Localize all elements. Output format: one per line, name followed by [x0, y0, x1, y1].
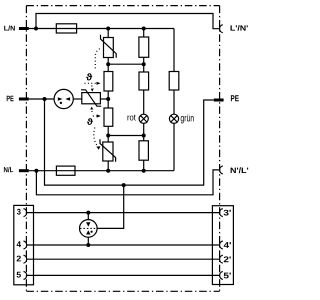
label 4 — [17, 241, 21, 247]
terminal L/N — [19, 27, 29, 30]
wire L/N rail — [29, 28, 57, 30]
varistor MOV1 — [104, 38, 114, 58]
wire PE rail — [29, 98, 54, 100]
device boundary (dash-dot border) — [26, 6, 219, 292]
resistor B1 — [139, 37, 149, 57]
label 2 — [17, 256, 21, 262]
node PE rail / column A — [106, 97, 110, 101]
label theta1 — [86, 73, 92, 80]
wire spark gap to varistor H — [73, 98, 82, 100]
varistor MOV2 — [103, 142, 113, 161]
lamp gruen — [169, 114, 178, 123]
node PE to lower run — [43, 97, 47, 101]
node GDT line 4 — [86, 243, 90, 247]
left terminal block box — [14, 205, 34, 284]
node N/L at through-path — [34, 169, 38, 173]
node row2 B — [142, 134, 146, 138]
thermal sense theta1 dotted from MOV1 — [95, 49, 100, 71]
thermal arrow theta2 to A3 — [93, 115, 97, 117]
label N'/L' — [231, 167, 249, 173]
node L/N to middle column — [142, 27, 146, 31]
right terminal block box — [212, 206, 233, 285]
contact 2' — [220, 255, 223, 263]
contact 3 — [24, 209, 27, 217]
wire N/L rail — [29, 170, 57, 172]
label N/L — [4, 167, 13, 172]
node N/L column A — [106, 169, 110, 173]
node N/L column B — [142, 169, 146, 173]
label PE left — [7, 96, 14, 102]
wire column A to N/L rail — [107, 161, 109, 171]
contact 3' — [220, 209, 223, 217]
disconnect device A2 — [104, 72, 113, 92]
label L'/N' — [231, 25, 248, 31]
terminal PE right — [214, 99, 224, 102]
terminal PE left — [19, 98, 29, 101]
contact N'/L' — [220, 166, 223, 174]
wire B1 to B2 — [143, 57, 145, 72]
wire column A upper — [107, 29, 109, 38]
contact L'/N' — [220, 25, 223, 33]
fuse F1 on L/N — [56, 24, 76, 33]
wire through-path top — [36, 14, 220, 29]
contact 4 — [24, 241, 27, 249]
wire link row1 — [108, 63, 144, 65]
wire line 5 — [27, 274, 220, 276]
wire link row2 — [108, 135, 144, 137]
varistor V3 horizontal — [82, 93, 101, 104]
contact 5' — [220, 271, 223, 279]
node PE run / GDT tap — [122, 183, 126, 187]
label PE right — [231, 95, 239, 101]
label 4' — [224, 242, 231, 248]
contact 4' — [220, 241, 223, 249]
wire GDT to line 3 — [87, 213, 89, 220]
label 3' — [224, 210, 231, 216]
label rot — [128, 115, 136, 121]
terminal N/L — [19, 169, 29, 172]
lamp rot — [139, 114, 148, 123]
resistor C1 — [169, 72, 179, 91]
thermal sense theta2 dotted from V3 — [90, 107, 93, 110]
wire GDT middle electrode to PE run — [97, 185, 124, 228]
wire line 2 — [27, 258, 220, 260]
wire gruen lamp to N/L rail — [173, 123, 175, 170]
wire column A between MOV1 and disconnect — [107, 58, 109, 72]
wire PE lower run — [45, 99, 214, 185]
resistor B2 — [139, 72, 149, 90]
wire varistor H to column A — [100, 98, 108, 100]
fuse F2 on N/L — [56, 166, 75, 175]
thermal arrow theta1 to V3 — [91, 86, 93, 88]
label 5 — [17, 272, 21, 278]
node L/N to varistor column — [106, 27, 110, 31]
label 2' — [224, 256, 231, 262]
thermal sense theta2 to MOV2 dotted curve — [94, 128, 97, 146]
label gruen — [181, 115, 194, 124]
wire rot lamp to node — [143, 123, 145, 140]
wire B2 to rot lamp — [143, 90, 145, 114]
node row1 B — [142, 62, 146, 66]
label L/N — [4, 26, 15, 31]
wire C1 to gruen lamp — [173, 90, 175, 114]
node row1 A — [106, 62, 110, 66]
wire column A to MOV2 — [107, 126, 109, 142]
resistor B3 — [139, 141, 148, 160]
wire line 4 — [27, 244, 220, 246]
wire column B: L/N to B1 — [143, 29, 145, 38]
wire GDT to line 4 — [87, 237, 89, 245]
wire column A to PE rail — [107, 91, 109, 108]
contact 2 — [24, 255, 27, 263]
wire column C: L/N down — [173, 29, 175, 72]
node row2 A — [106, 134, 110, 138]
node on L/N at through-path — [34, 27, 38, 31]
label theta2 — [87, 118, 93, 125]
disconnect device A3 — [104, 108, 113, 126]
wire line 3 — [27, 212, 220, 214]
spark gap FS — [54, 89, 73, 108]
wire B3 to N/L rail — [143, 160, 145, 171]
contact 5 — [24, 271, 27, 279]
thermal arrow theta1 to A2 — [85, 82, 97, 84]
label 5' — [224, 273, 231, 279]
node GDT line 3 — [86, 211, 90, 215]
label 3 — [17, 209, 21, 215]
gas discharge tube GDT — [80, 220, 98, 238]
wire N/L through run — [36, 170, 219, 195]
